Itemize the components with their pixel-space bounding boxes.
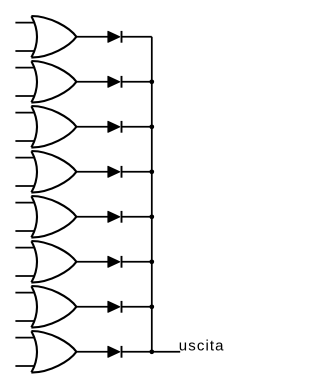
junction dot on bus at row 5 [149, 214, 154, 219]
OR gate G2 [31, 61, 76, 103]
diode D6 [108, 256, 122, 268]
OR gate G5 [31, 196, 76, 238]
wire: diode D5 cathode to output bus [122, 216, 152, 218]
junction dot on bus at row 4 [149, 169, 154, 174]
wire: input B of gate G1 [15, 50, 38, 52]
wire: input B of gate G7 [15, 320, 38, 322]
wire: input A of gate G8 [15, 337, 38, 339]
svg-text:uscita: uscita [179, 338, 225, 355]
diode D4 [108, 166, 122, 178]
wire: input B of gate G2 [15, 95, 38, 97]
wire: input B of gate G3 [15, 140, 38, 142]
diode D7 [108, 301, 122, 313]
junction dot on bus at row 2 [149, 79, 154, 84]
OR gate G3 [31, 106, 76, 148]
wire: input B of gate G8 [15, 365, 38, 367]
diode D8 [108, 346, 122, 358]
wire: diode D8 cathode to output bus [122, 351, 152, 353]
OR gate G8 [31, 331, 76, 373]
junction dot on bus at row 7 [149, 304, 154, 309]
wire: vertical output bus [151, 37, 153, 352]
wire: bus to uscita label [152, 351, 180, 353]
wire: gate G8 output to diode D8 anode [75, 351, 109, 353]
wire: diode D1 cathode to output bus [122, 36, 152, 38]
wire: diode D6 cathode to output bus [122, 261, 152, 263]
wire: input A of gate G3 [15, 112, 38, 114]
diode D3 [108, 121, 122, 133]
wire: gate G3 output to diode D3 anode [75, 126, 109, 128]
wire: gate G5 output to diode D5 anode [75, 216, 109, 218]
wire: diode D3 cathode to output bus [122, 126, 152, 128]
OR gate G6 [31, 241, 76, 283]
wire: input B of gate G4 [15, 185, 38, 187]
wire: input A of gate G4 [15, 157, 38, 159]
junction dot on bus at row 6 [149, 259, 154, 264]
wire: input A of gate G2 [15, 67, 38, 69]
junction dot on bus at row 3 [149, 124, 154, 129]
OR gate G1 [31, 16, 76, 58]
wire: input A of gate G1 [15, 22, 38, 24]
wire: gate G6 output to diode D6 anode [75, 261, 109, 263]
OR gate G4 [31, 151, 76, 193]
wire: input B of gate G5 [15, 230, 38, 232]
wire: input A of gate G6 [15, 247, 38, 249]
wire: input B of gate G6 [15, 275, 38, 277]
OR gate G7 [31, 286, 76, 328]
wire: input A of gate G7 [15, 292, 38, 294]
wire: input A of gate G5 [15, 202, 38, 204]
wire: diode D7 cathode to output bus [122, 306, 152, 308]
diode D1 [108, 31, 122, 43]
junction dot on bus at row 8 [149, 349, 154, 354]
wire: diode D4 cathode to output bus [122, 171, 152, 173]
wire: gate G2 output to diode D2 anode [75, 81, 109, 83]
diode D2 [108, 76, 122, 88]
wire: gate G1 output to diode D1 anode [75, 36, 109, 38]
wire: gate G4 output to diode D4 anode [75, 171, 109, 173]
wire: gate G7 output to diode D7 anode [75, 306, 109, 308]
wire: diode D2 cathode to output bus [122, 81, 152, 83]
diode D5 [108, 211, 122, 223]
